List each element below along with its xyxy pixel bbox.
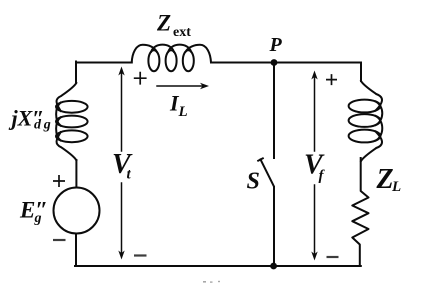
svg-text:t: t bbox=[127, 167, 132, 183]
svg-text:g: g bbox=[34, 211, 42, 226]
svg-text:Z: Z bbox=[156, 11, 171, 36]
svg-text:d g: d g bbox=[34, 118, 51, 133]
svg-text:f: f bbox=[319, 168, 326, 184]
svg-text:L: L bbox=[178, 104, 188, 120]
svg-text:P: P bbox=[269, 34, 283, 56]
svg-text:L: L bbox=[391, 179, 401, 195]
svg-text:ext: ext bbox=[173, 25, 191, 40]
svg-text:S: S bbox=[247, 169, 260, 195]
svg-text:Z: Z bbox=[376, 164, 394, 195]
